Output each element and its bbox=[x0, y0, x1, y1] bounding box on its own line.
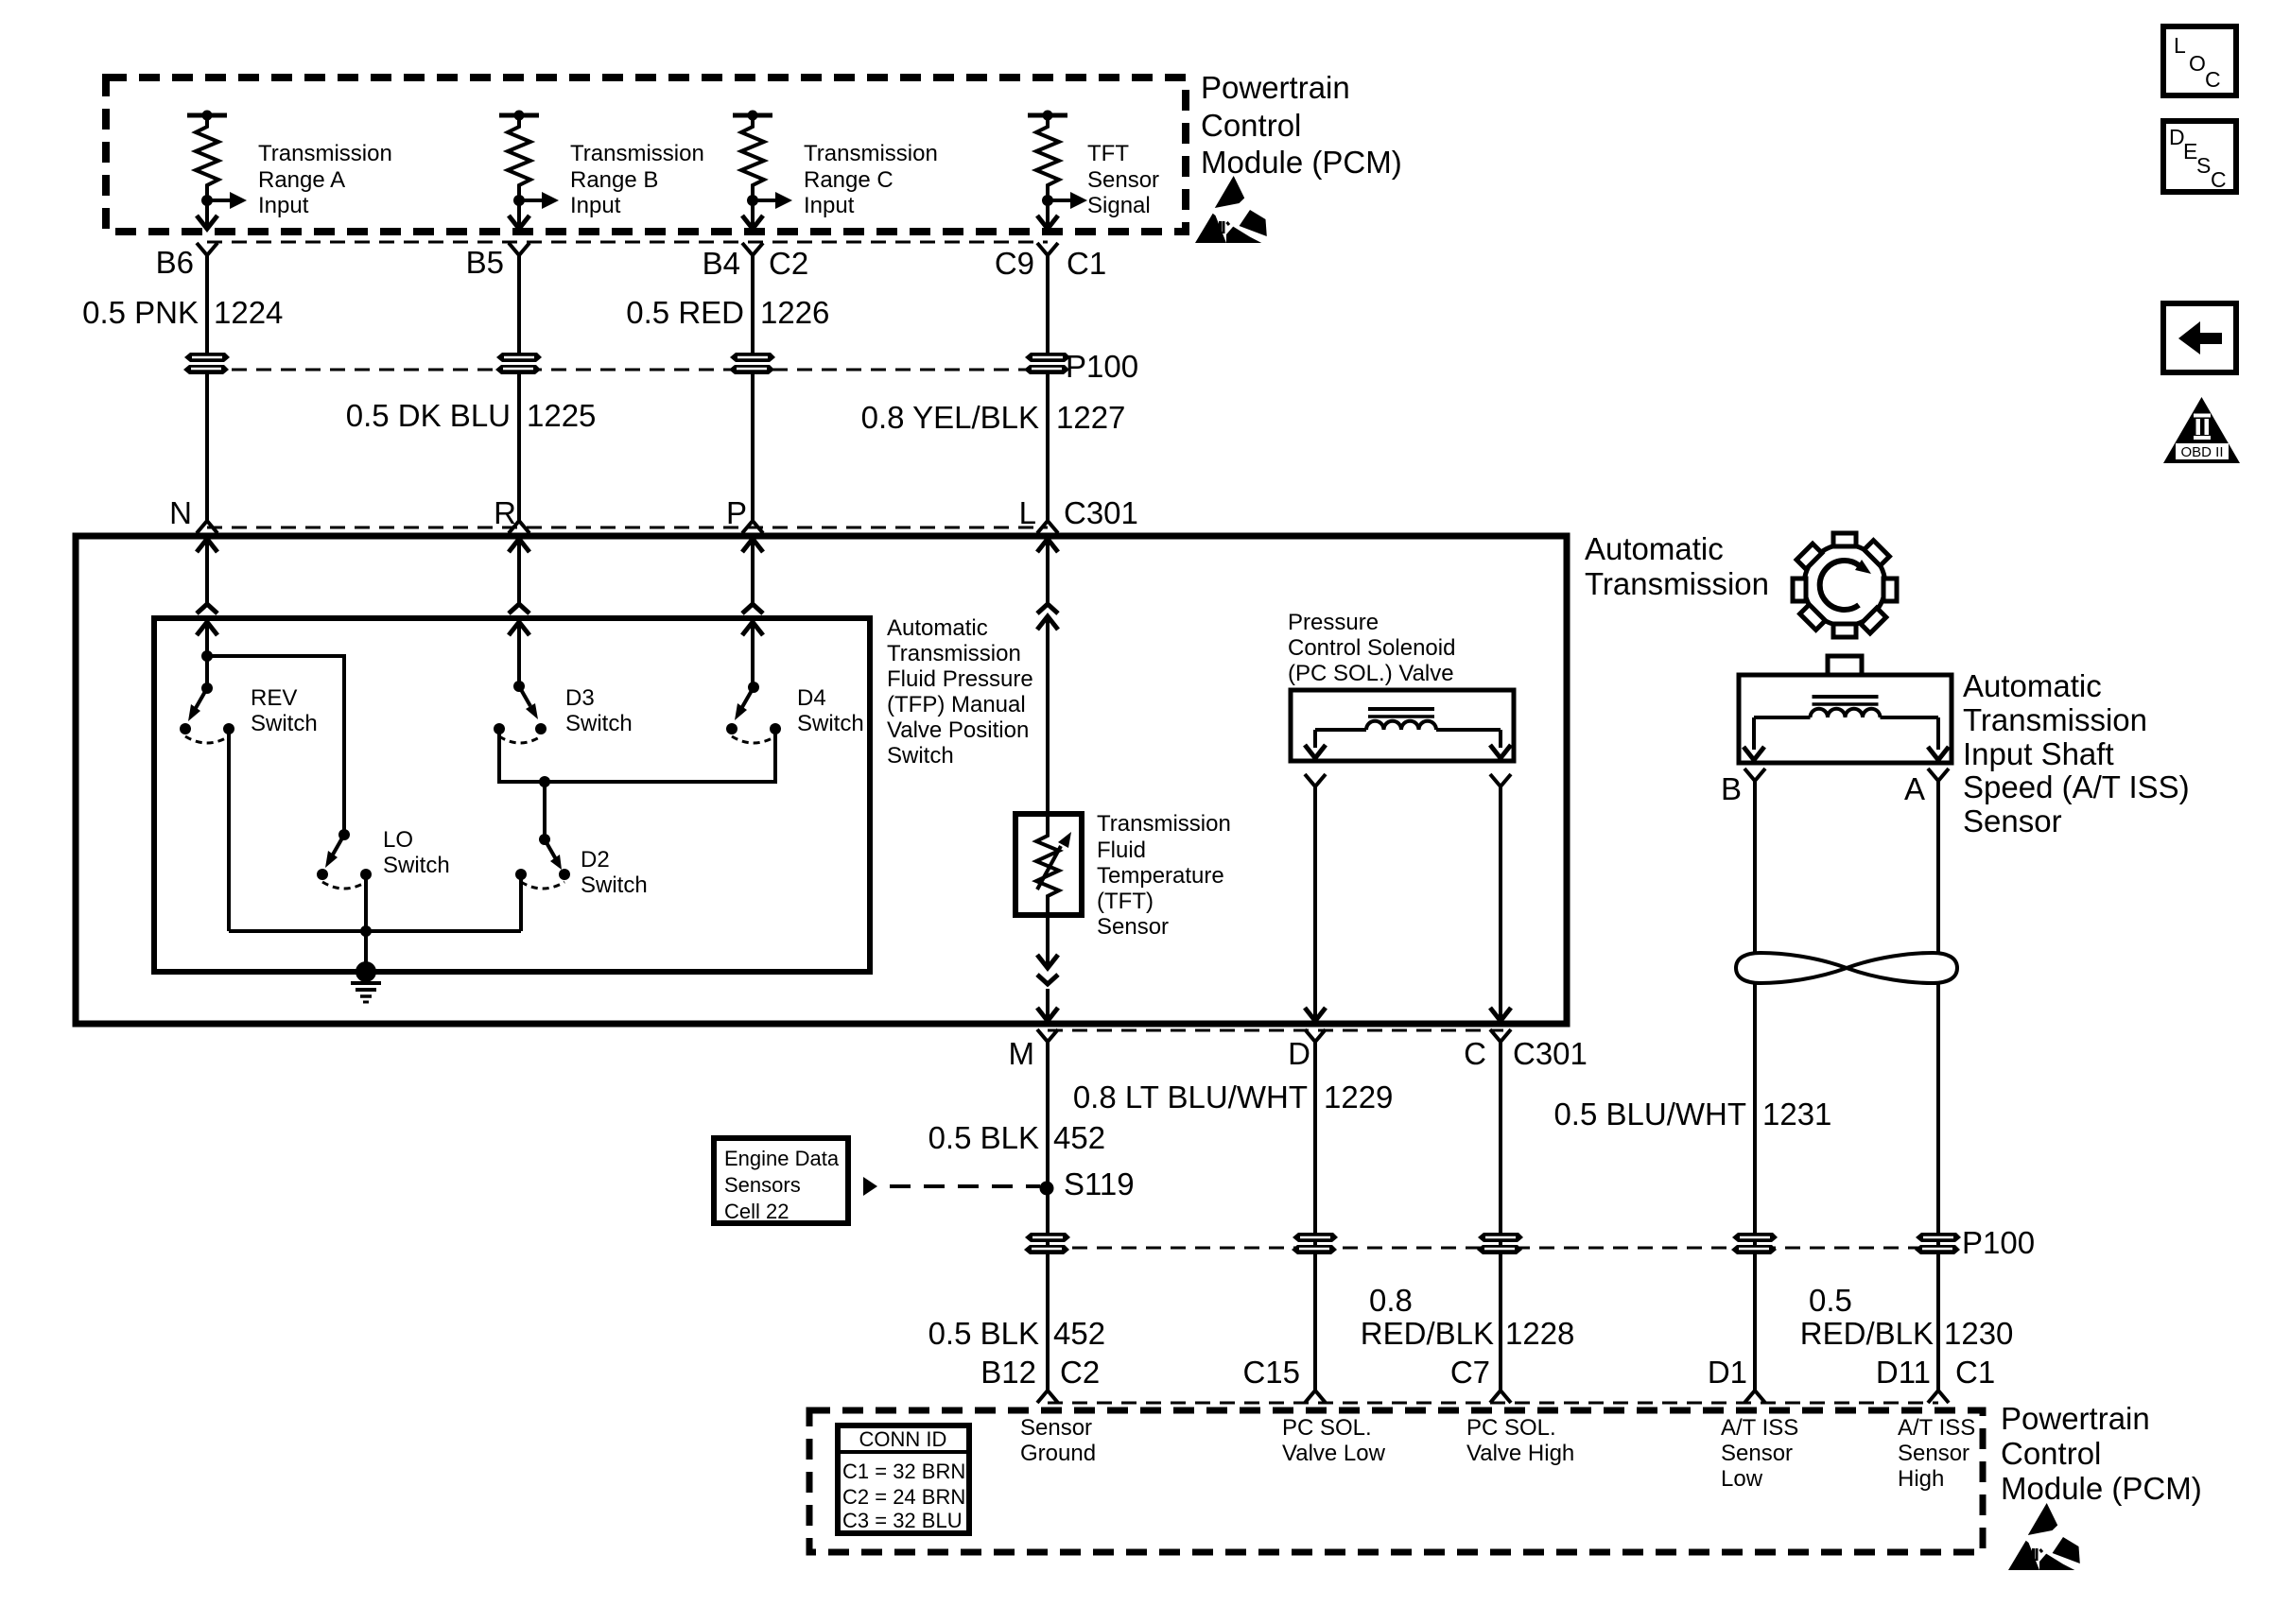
label Pressure Control Solenoid (PC SOL.) Valve bbox=[1288, 610, 1455, 686]
svg-text:P: P bbox=[726, 495, 747, 530]
svg-text:B5: B5 bbox=[466, 245, 504, 280]
svg-text:Transmission: Transmission bbox=[804, 141, 938, 166]
svg-text:C1: C1 bbox=[1955, 1355, 1995, 1390]
svg-text:Transmission: Transmission bbox=[570, 141, 704, 166]
svg-text:Ground: Ground bbox=[1020, 1441, 1096, 1466]
svg-text:D: D bbox=[1288, 1036, 1310, 1071]
wire W3 upper bbox=[751, 255, 755, 357]
heading Powertrain Control Module (PCM) top bbox=[1201, 70, 1402, 180]
wire label 0.5 RED 1226 bbox=[626, 295, 829, 330]
svg-text:0.8 LT BLU/WHT: 0.8 LT BLU/WHT bbox=[1073, 1080, 1308, 1114]
svg-text:Signal: Signal bbox=[1087, 193, 1151, 218]
ISS sensor box tab bbox=[1828, 656, 1862, 675]
svg-text:Switch: Switch bbox=[251, 711, 318, 736]
labels A/T ISS Sensor High bbox=[1898, 1415, 1975, 1492]
svg-text:0.5 BLK: 0.5 BLK bbox=[928, 1316, 1039, 1351]
wire W4 lower bbox=[1046, 1042, 1050, 1391]
connector Y L bbox=[1037, 521, 1058, 533]
svg-text:RED/BLK: RED/BLK bbox=[1361, 1316, 1494, 1351]
svg-text:TFT: TFT bbox=[1087, 141, 1129, 166]
svg-text:C301: C301 bbox=[1513, 1036, 1588, 1071]
svg-text:Valve Low: Valve Low bbox=[1282, 1441, 1386, 1466]
LOC box icon bbox=[2163, 26, 2236, 95]
svg-text:Speed (A/T ISS): Speed (A/T ISS) bbox=[1963, 769, 2190, 804]
TFT sensor box bbox=[1015, 814, 1082, 915]
svg-text:C2: C2 bbox=[769, 246, 808, 281]
wire W1 mid bbox=[205, 371, 209, 521]
PC SOL valve box bbox=[1291, 690, 1514, 761]
svg-text:Sensor: Sensor bbox=[1097, 914, 1169, 940]
svg-text:1225: 1225 bbox=[527, 398, 596, 433]
DESC box icon bbox=[2163, 121, 2236, 192]
svg-text:1230: 1230 bbox=[1944, 1316, 2013, 1351]
wire W6 bbox=[1499, 786, 1502, 1022]
grommet P100 W6 bottom bbox=[1477, 1233, 1523, 1254]
gear icon bbox=[1771, 511, 1918, 659]
svg-text:Low: Low bbox=[1721, 1466, 1763, 1492]
svg-text:C: C bbox=[2205, 67, 2221, 92]
svg-text:C2 = 24 BRN: C2 = 24 BRN bbox=[842, 1485, 965, 1509]
svg-text:Input: Input bbox=[804, 193, 855, 218]
label D4 Switch bbox=[797, 685, 864, 736]
D2 switch bbox=[515, 834, 570, 889]
connector Y D11/C1 bbox=[1928, 1391, 1949, 1403]
wire label 0.5 DK BLU 1225 bbox=[346, 398, 597, 433]
label TFT Sensor Signal bbox=[1087, 141, 1159, 218]
svg-text:1226: 1226 bbox=[760, 295, 829, 330]
svg-text:LO: LO bbox=[383, 827, 413, 853]
wire W3 into AT box bbox=[742, 539, 763, 552]
labels A/T ISS Sensor Low bbox=[1721, 1415, 1798, 1492]
grommet P100 W4 bottom bbox=[1024, 1233, 1070, 1254]
svg-text:RED/BLK: RED/BLK bbox=[1800, 1316, 1934, 1351]
svg-text:(TFT): (TFT) bbox=[1097, 889, 1154, 914]
svg-text:Sensor: Sensor bbox=[1087, 167, 1159, 193]
svg-text:1228: 1228 bbox=[1505, 1316, 1574, 1351]
PC SOL coil bbox=[1366, 709, 1436, 730]
svg-text:A/T ISS: A/T ISS bbox=[1721, 1415, 1798, 1441]
svg-text:1231: 1231 bbox=[1762, 1097, 1831, 1132]
svg-text:PC SOL.: PC SOL. bbox=[1282, 1415, 1372, 1441]
wire W8 bbox=[1936, 781, 1940, 1391]
svg-text:N: N bbox=[169, 495, 192, 530]
ISS connector Ys bbox=[1744, 769, 1765, 781]
resistor: Transmission Range B Input bbox=[499, 111, 559, 231]
grommet P100 W4 bbox=[1024, 353, 1070, 374]
connector Y C bbox=[1490, 1029, 1511, 1042]
D4 switch bbox=[726, 682, 781, 743]
svg-text:Control Solenoid: Control Solenoid bbox=[1288, 635, 1455, 661]
svg-text:452: 452 bbox=[1053, 1120, 1105, 1155]
PC SOL connector Ys bbox=[1305, 774, 1326, 786]
TFT thermistor zigzag bbox=[1036, 811, 1059, 969]
labels Sensor Ground bbox=[1020, 1415, 1096, 1466]
svg-text:Cell 22: Cell 22 bbox=[724, 1200, 789, 1223]
svg-text:Transmission: Transmission bbox=[1963, 702, 2147, 737]
svg-text:B12: B12 bbox=[980, 1355, 1036, 1390]
wire W4 upper bbox=[1046, 255, 1050, 357]
C301 dashed row bbox=[207, 527, 1048, 529]
svg-text:B6: B6 bbox=[156, 245, 194, 280]
connector Y B4/C2 bbox=[742, 243, 763, 255]
wire REV right contact down bbox=[227, 729, 231, 931]
svg-text:CONN ID: CONN ID bbox=[859, 1427, 947, 1451]
PCM top dashed box bbox=[106, 78, 1186, 232]
svg-text:Automatic: Automatic bbox=[887, 615, 988, 641]
ESD symbol bottom bbox=[2008, 1503, 2080, 1570]
svg-text:Module (PCM): Module (PCM) bbox=[1201, 145, 1402, 180]
wire W4 mid bbox=[1046, 371, 1050, 521]
svg-text:Sensor: Sensor bbox=[1963, 803, 2062, 838]
svg-text:L: L bbox=[2174, 33, 2186, 58]
svg-text:Powertrain: Powertrain bbox=[2001, 1401, 2150, 1436]
wire W5 bbox=[1313, 786, 1317, 1022]
grommet P100 W1 bbox=[183, 353, 230, 374]
svg-text:C7: C7 bbox=[1450, 1355, 1490, 1390]
connector Y C9/C1 bbox=[1037, 243, 1058, 255]
svg-text:High: High bbox=[1898, 1466, 1944, 1492]
left-arrow box icon bbox=[2163, 303, 2236, 372]
bottom C301 dashed row bbox=[1048, 1029, 1503, 1032]
connector Y M bbox=[1037, 1029, 1058, 1042]
svg-text:Automatic: Automatic bbox=[1585, 531, 1724, 566]
svg-text:Valve High: Valve High bbox=[1466, 1441, 1574, 1466]
wire label 0.5 BLK 452 lower bbox=[928, 1316, 1105, 1351]
svg-text:Transmission: Transmission bbox=[887, 641, 1021, 666]
svg-text:Range C: Range C bbox=[804, 167, 894, 193]
REV switch bbox=[180, 650, 234, 743]
Automatic Transmission box bbox=[76, 536, 1567, 1024]
label Transmission Fluid Temperature (TFT) Sensor bbox=[1097, 811, 1231, 940]
svg-text:Module (PCM): Module (PCM) bbox=[2001, 1471, 2202, 1506]
wire W4 into AT box bbox=[1037, 539, 1058, 552]
label Automatic Transmission Fluid Pressure (TFP) Manual Valve Position Switch bbox=[887, 615, 1033, 769]
connector Y C15 bbox=[1305, 1391, 1326, 1403]
ISS coil bbox=[1811, 697, 1881, 717]
svg-text:B4: B4 bbox=[703, 246, 740, 281]
ESD symbol top bbox=[1195, 176, 1267, 243]
svg-text:C301: C301 bbox=[1064, 495, 1138, 530]
node labels M D C C301 bbox=[1009, 1036, 1588, 1071]
svg-text:1227: 1227 bbox=[1056, 400, 1125, 435]
svg-text:C3 = 32 BLU: C3 = 32 BLU bbox=[842, 1509, 963, 1532]
ground symbol bbox=[351, 961, 381, 1002]
wire W5 lower bbox=[1313, 1042, 1317, 1391]
grommet P100 W3 bbox=[729, 353, 775, 374]
splice S119 bbox=[1040, 1182, 1054, 1196]
svg-text:M: M bbox=[1009, 1036, 1035, 1071]
wire W1 into AT box bbox=[197, 539, 217, 552]
connector Y B12/C2 bbox=[1037, 1391, 1058, 1403]
svg-text:Sensors: Sensors bbox=[724, 1173, 801, 1197]
grommet P100 W2 bbox=[495, 353, 542, 374]
svg-text:Input: Input bbox=[570, 193, 621, 218]
label D2 Switch bbox=[581, 847, 648, 898]
CONN ID table bbox=[838, 1425, 969, 1533]
ground bus wires bbox=[364, 874, 368, 972]
wire label 0.5 PNK 1224 bbox=[82, 295, 283, 330]
heading Powertrain Control Module (PCM) bottom bbox=[2001, 1401, 2202, 1506]
svg-text:P100: P100 bbox=[1962, 1225, 2035, 1260]
D2 feed wire bbox=[543, 782, 547, 839]
bottom pin dashed row bbox=[1048, 1402, 1938, 1405]
wire label 0.5 BLK 452 upper bbox=[928, 1120, 1105, 1155]
heading Automatic Transmission bbox=[1585, 531, 1769, 601]
svg-text:Input Shaft: Input Shaft bbox=[1963, 736, 2114, 771]
D3 switch bbox=[494, 681, 547, 743]
resistor: TFT Sensor Signal bbox=[1028, 111, 1087, 231]
svg-text:0.5 DK BLU: 0.5 DK BLU bbox=[346, 398, 511, 433]
svg-text:(PC SOL.) Valve: (PC SOL.) Valve bbox=[1288, 661, 1454, 686]
wire W1 upper bbox=[205, 255, 209, 357]
pin labels B A bbox=[1721, 771, 1925, 806]
resistor: Transmission Range A Input bbox=[187, 111, 247, 231]
TFP switch box bbox=[154, 618, 870, 972]
svg-text:C15: C15 bbox=[1242, 1355, 1300, 1390]
wire REV to LO feed bbox=[207, 656, 344, 835]
svg-text:D1: D1 bbox=[1708, 1355, 1747, 1390]
wire label 0.8 YEL/BLK 1227 bbox=[861, 400, 1126, 435]
svg-text:(TFP) Manual: (TFP) Manual bbox=[887, 692, 1026, 717]
svg-text:Control: Control bbox=[2001, 1436, 2101, 1471]
svg-text:O: O bbox=[2189, 51, 2206, 76]
wire W2 mid bbox=[517, 371, 521, 521]
connector Y R bbox=[509, 521, 529, 533]
wire W2 into AT box bbox=[509, 539, 529, 552]
svg-text:B: B bbox=[1721, 771, 1742, 806]
ISS sensor box bbox=[1739, 675, 1952, 763]
svg-text:Range B: Range B bbox=[570, 167, 658, 193]
svg-text:Switch: Switch bbox=[581, 872, 648, 898]
svg-text:0.8 YEL/BLK: 0.8 YEL/BLK bbox=[861, 400, 1039, 435]
svg-text:PC SOL.: PC SOL. bbox=[1466, 1415, 1556, 1441]
svg-text:1224: 1224 bbox=[214, 295, 283, 330]
svg-text:0.5 PNK: 0.5 PNK bbox=[82, 295, 199, 330]
LO switch bbox=[317, 829, 372, 889]
svg-text:Temperature: Temperature bbox=[1097, 863, 1224, 889]
label Transmission Range A Input bbox=[258, 141, 392, 218]
resistor: Transmission Range C Input bbox=[733, 111, 792, 231]
svg-text:Valve Position: Valve Position bbox=[887, 717, 1029, 743]
svg-text:0.5: 0.5 bbox=[1809, 1283, 1852, 1318]
labels PC SOL. Valve Low bbox=[1282, 1415, 1386, 1466]
wire W6 lower bbox=[1499, 1042, 1502, 1391]
label Transmission Range C Input bbox=[804, 141, 938, 218]
svg-text:0.8: 0.8 bbox=[1369, 1283, 1413, 1318]
wire W3 mid bbox=[751, 371, 755, 521]
svg-text:D3: D3 bbox=[565, 685, 595, 711]
label D3 Switch bbox=[565, 685, 633, 736]
svg-text:A: A bbox=[1904, 771, 1925, 806]
label REV Switch bbox=[251, 685, 318, 736]
svg-text:REV: REV bbox=[251, 685, 297, 711]
svg-text:R: R bbox=[494, 495, 516, 530]
wire label 0.5 BLU/WHT 1231 bbox=[1553, 1097, 1831, 1132]
engine data arrow bbox=[863, 1177, 877, 1196]
pin row dashed line under PCM bbox=[207, 241, 1048, 244]
svg-text:0.5 BLU/WHT: 0.5 BLU/WHT bbox=[1553, 1097, 1746, 1132]
svg-text:452: 452 bbox=[1053, 1316, 1105, 1351]
svg-text:Input: Input bbox=[258, 193, 309, 218]
TFT arrow bbox=[1037, 846, 1061, 890]
svg-text:0.5 RED: 0.5 RED bbox=[626, 295, 744, 330]
wire W7 bbox=[1753, 781, 1757, 1391]
OBD II triangle icon bbox=[2163, 397, 2240, 463]
svg-text:Switch: Switch bbox=[383, 853, 450, 878]
P100 dashed row bottom bbox=[1048, 1247, 1938, 1250]
svg-text:Transmission: Transmission bbox=[1097, 811, 1231, 837]
wire label 0.8 RED/BLK 1228 bbox=[1361, 1283, 1575, 1351]
pin labels bbox=[156, 245, 1107, 281]
svg-text:D2: D2 bbox=[581, 847, 610, 872]
svg-text:Range A: Range A bbox=[258, 167, 345, 193]
svg-text:Switch: Switch bbox=[887, 743, 954, 769]
label Automatic Transmission Input Shaft Speed (A/T ISS) Sensor bbox=[1963, 668, 2190, 838]
node labels N R P L C301 bbox=[169, 495, 1138, 530]
connector Y B6 bbox=[197, 243, 217, 255]
svg-text:C: C bbox=[2211, 167, 2227, 192]
PCM bottom dashed box bbox=[809, 1410, 1983, 1552]
pin labels bottom bbox=[980, 1355, 1995, 1390]
wire label 0.5 RED/BLK 1230 bbox=[1800, 1283, 2014, 1351]
svg-text:1229: 1229 bbox=[1324, 1080, 1393, 1114]
svg-text:Switch: Switch bbox=[565, 711, 633, 736]
labels PC SOL. Valve High bbox=[1466, 1415, 1574, 1466]
svg-text:Switch: Switch bbox=[797, 711, 864, 736]
svg-text:Transmission: Transmission bbox=[1585, 566, 1769, 601]
svg-text:Pressure: Pressure bbox=[1288, 610, 1379, 635]
svg-text:C: C bbox=[1464, 1036, 1486, 1071]
svg-text:OBD II: OBD II bbox=[2180, 444, 2223, 460]
twisted pair symbol bbox=[1736, 953, 1957, 983]
wire W4 below TFT bbox=[1037, 955, 1058, 968]
svg-text:D11: D11 bbox=[1876, 1355, 1931, 1390]
svg-text:L: L bbox=[1019, 495, 1036, 530]
connector Y D1 bbox=[1744, 1391, 1765, 1403]
svg-text:C2: C2 bbox=[1060, 1355, 1100, 1390]
connector Y P bbox=[742, 521, 763, 533]
svg-text:A/T ISS: A/T ISS bbox=[1898, 1415, 1975, 1441]
svg-text:Fluid Pressure: Fluid Pressure bbox=[887, 666, 1033, 692]
label Transmission Range B Input bbox=[570, 141, 704, 218]
grommet P100 W8 bottom bbox=[1915, 1233, 1961, 1254]
connector Y B5 bbox=[509, 243, 529, 255]
svg-text:Engine Data: Engine Data bbox=[724, 1147, 840, 1170]
connector Y C7 bbox=[1490, 1391, 1511, 1403]
D3/D4 bus wire bbox=[499, 729, 775, 782]
svg-text:Transmission: Transmission bbox=[258, 141, 392, 166]
connector Y D bbox=[1305, 1029, 1326, 1042]
Engine Data Sensors Cell 22 box bbox=[714, 1138, 848, 1223]
svg-text:C1: C1 bbox=[1067, 246, 1106, 281]
svg-text:Sensor: Sensor bbox=[1020, 1415, 1092, 1441]
svg-text:Sensor: Sensor bbox=[1898, 1441, 1969, 1466]
svg-text:S: S bbox=[2196, 153, 2211, 178]
svg-text:Sensor: Sensor bbox=[1721, 1441, 1793, 1466]
svg-text:Powertrain: Powertrain bbox=[1201, 70, 1350, 105]
connector Y N bbox=[197, 521, 217, 533]
svg-text:P100: P100 bbox=[1066, 349, 1138, 384]
svg-text:C1 = 32 BRN: C1 = 32 BRN bbox=[842, 1460, 965, 1483]
grommet P100 W7 bottom bbox=[1731, 1233, 1778, 1254]
svg-text:0.5 BLK: 0.5 BLK bbox=[928, 1120, 1039, 1155]
svg-text:Automatic: Automatic bbox=[1963, 668, 2102, 703]
svg-text:C9: C9 bbox=[995, 246, 1034, 281]
svg-text:D4: D4 bbox=[797, 685, 826, 711]
svg-text:Control: Control bbox=[1201, 108, 1301, 143]
svg-text:Fluid: Fluid bbox=[1097, 838, 1146, 863]
P100 dashed row top bbox=[207, 369, 1048, 371]
wire W2 upper bbox=[517, 255, 521, 357]
grommet P100 W5 bottom bbox=[1292, 1233, 1338, 1254]
engine data dashed wire bbox=[890, 1184, 1040, 1188]
wire label 0.8 LT BLU/WHT 1229 bbox=[1073, 1080, 1394, 1114]
label LO Switch bbox=[383, 827, 450, 878]
svg-text:S119: S119 bbox=[1064, 1166, 1135, 1201]
